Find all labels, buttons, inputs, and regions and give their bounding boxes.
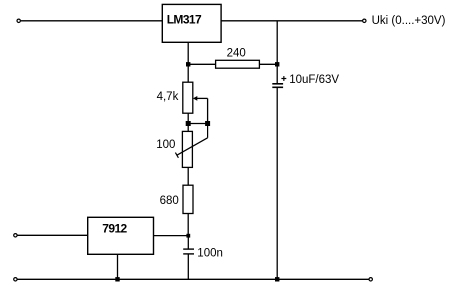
wire 7912 input [17, 234, 87, 236]
svg-text:680: 680 [160, 195, 179, 207]
potentiometer R 4,7k [157, 82, 193, 113]
node junction 240/C1 [275, 62, 279, 66]
svg-text:7912: 7912 [102, 222, 127, 236]
wire top rail right [221, 20, 362, 22]
wire top rail left [21, 20, 162, 22]
potentiometer R 100 [156, 131, 192, 167]
resistor 240 [216, 48, 260, 69]
wire 100n bottom lead [187, 254, 189, 279]
wire trimmer arm diagonal [177, 138, 208, 155]
wire junction row [188, 123, 207, 125]
wire 4,7k bottom lead [187, 113, 189, 131]
wire 100n top lead [187, 236, 189, 249]
terminal bottom-right [369, 278, 372, 281]
svg-text:240: 240 [227, 48, 246, 60]
capacitor C2 100n [183, 247, 223, 259]
wire LM317 ADJ pin [187, 42, 189, 64]
resistor 680 [160, 185, 193, 213]
wire wiper drop [207, 98, 209, 123]
wiper arrow 4,7k [193, 96, 208, 101]
terminal bottom-left [14, 278, 17, 281]
node junction 7912 ground [115, 277, 119, 281]
terminal input mid-left [14, 234, 17, 237]
node junction C1 ground [275, 277, 279, 281]
wire 7912 ground pin [117, 254, 119, 279]
wire trimmer arm vertical [207, 124, 209, 138]
node junction wiper right [205, 121, 210, 126]
trimmer tick [175, 153, 178, 158]
wire 100 to 680 [187, 167, 189, 185]
svg-text:10uF/63V: 10uF/63V [289, 74, 339, 86]
wire C1 branch top [276, 21, 278, 84]
capacitor C1 10uF/63V [272, 74, 339, 87]
node junction wiper left [186, 121, 191, 126]
svg-text:4,7k: 4,7k [157, 91, 179, 103]
svg-text:100n: 100n [197, 247, 223, 259]
svg-text:LM317: LM317 [167, 13, 202, 27]
wire 240 left lead [188, 63, 215, 65]
IC U1 LM317 regulator [162, 4, 221, 42]
svg-text:100: 100 [156, 139, 175, 151]
wire 4,7k top lead [187, 64, 189, 82]
node junction ADJ/240 [186, 62, 190, 66]
svg-text:Uki (0....+30V): Uki (0....+30V) [372, 15, 446, 27]
wire 680 bottom lead [187, 214, 189, 236]
wire C1 branch bottom [276, 87, 278, 279]
terminal input top-left [17, 19, 20, 22]
wire bottom rail [17, 278, 368, 280]
IC U2 7912 regulator [88, 217, 154, 254]
wire 7912 output [154, 235, 189, 237]
node junction 680/7912/100n [186, 234, 190, 238]
wire 240 right lead [259, 63, 277, 65]
terminal output Uki [363, 19, 366, 22]
